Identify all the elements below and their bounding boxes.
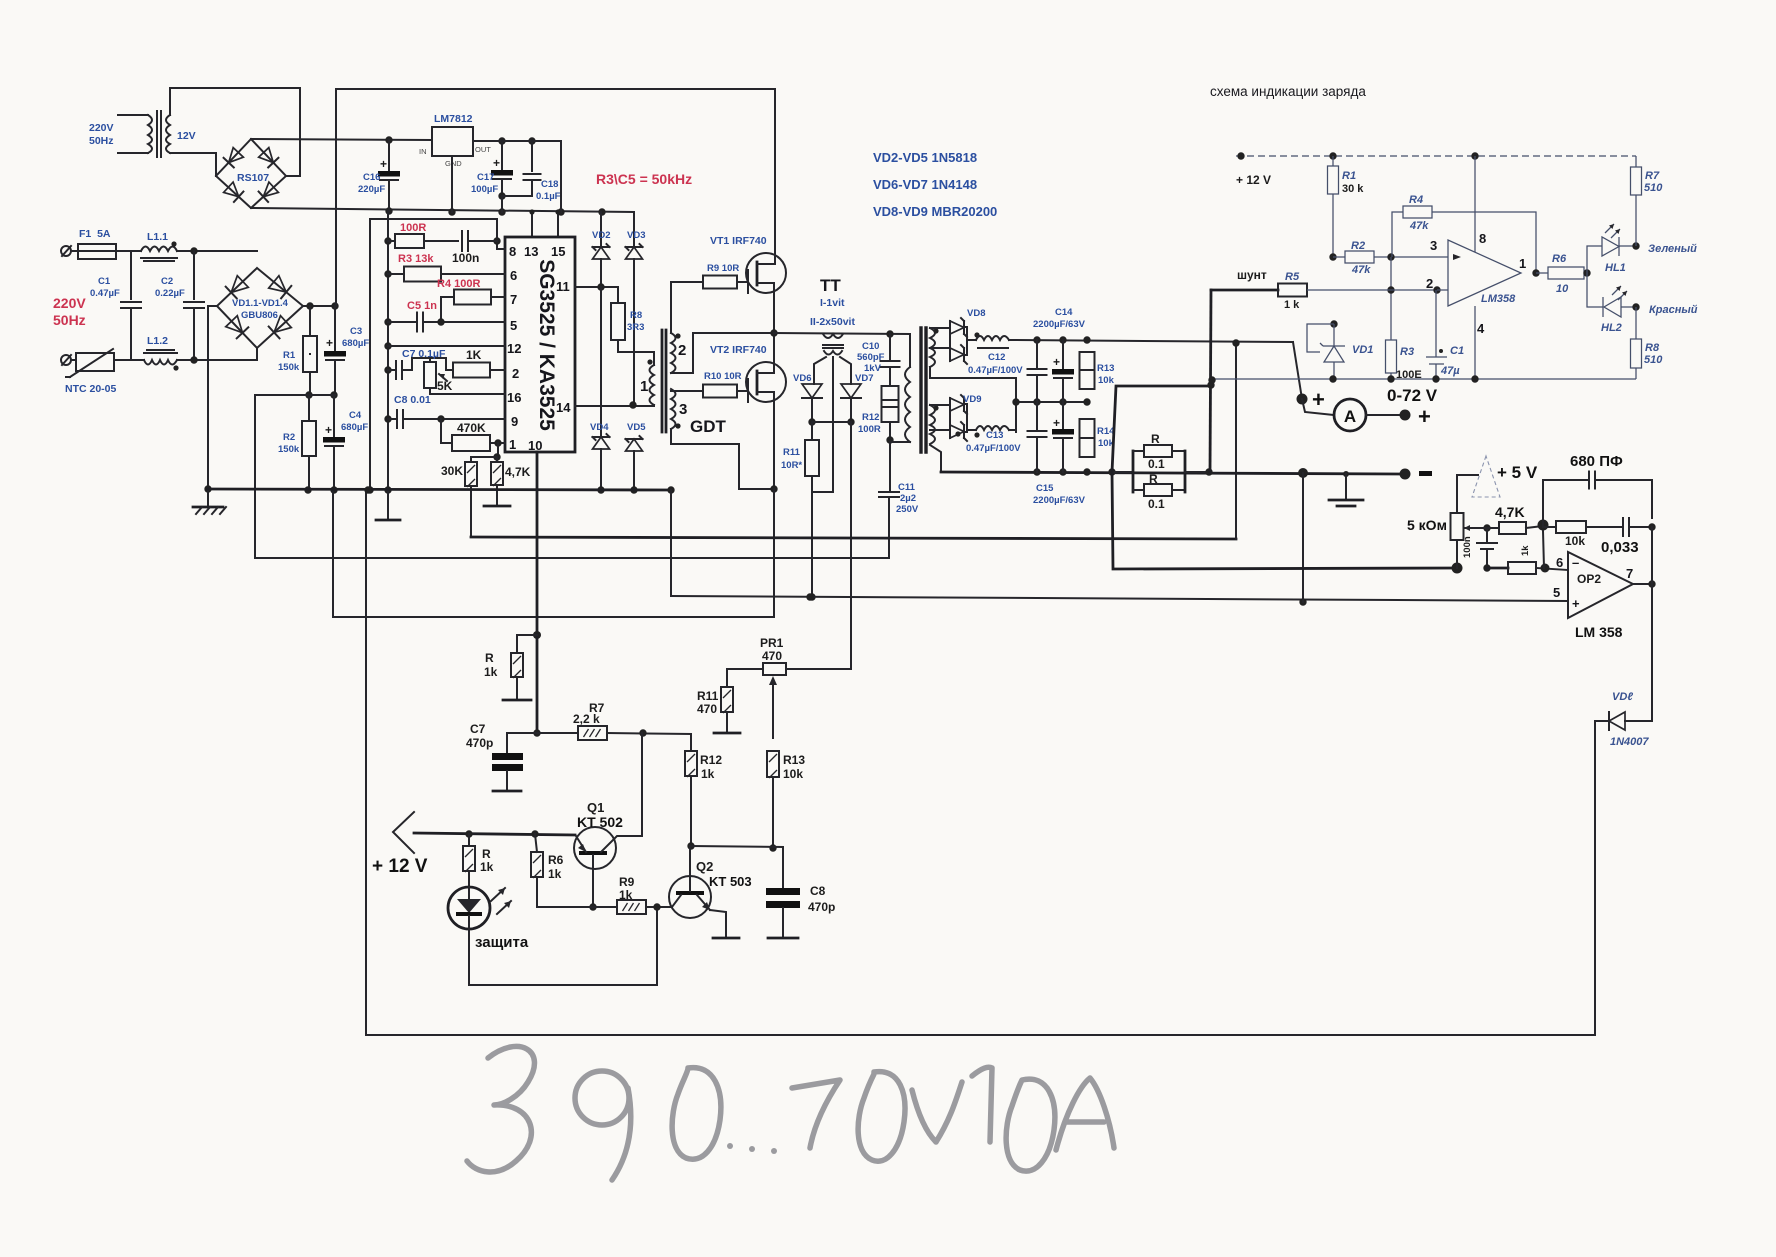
svg-text:GND: GND <box>445 159 462 168</box>
resistor R12 1k <box>690 734 692 751</box>
mosfet VT2 IRF740 <box>746 362 786 402</box>
svg-text:C8: C8 <box>810 884 826 898</box>
wire LED cathode to Q2 base node <box>469 907 657 985</box>
svg-text:11: 11 <box>556 279 570 294</box>
svg-text:C10: C10 <box>862 341 879 352</box>
svg-text:1: 1 <box>640 378 648 395</box>
svg-text:R11: R11 <box>783 447 801 458</box>
svg-text:VD9: VD9 <box>963 394 981 405</box>
PR1 wiper from R13 <box>772 682 774 738</box>
GDT winding 2 <box>671 333 676 373</box>
svg-text:SG3525 / KA3525: SG3525 / KA3525 <box>535 259 558 431</box>
inductor L1.2 <box>144 360 177 365</box>
svg-text:16: 16 <box>507 390 521 405</box>
svg-text:OUT: OUT <box>475 145 491 154</box>
resistor R14 10k <box>1080 419 1095 457</box>
svg-text:10k: 10k <box>783 767 803 781</box>
svg-text:VDℓ: VDℓ <box>1612 691 1633 703</box>
svg-text:470p: 470p <box>466 736 493 750</box>
bridge VD1.1-VD1.4 GBU806 <box>217 268 303 348</box>
svg-text:13: 13 <box>524 244 538 259</box>
svg-text:R13: R13 <box>783 753 805 767</box>
svg-text:680 ПФ: 680 ПФ <box>1570 453 1623 470</box>
svg-text:OP2: OP2 <box>1577 572 1601 586</box>
wire C3/C4 midpoint <box>255 394 335 396</box>
svg-text:4,7K: 4,7K <box>1495 504 1525 520</box>
svg-text:1: 1 <box>1519 256 1526 271</box>
svg-text:LM 358: LM 358 <box>1575 624 1623 640</box>
transformer T1 220V/12V <box>118 114 148 116</box>
svg-text:100R: 100R <box>400 222 426 234</box>
svg-text:шунт: шунт <box>1237 268 1267 282</box>
wire pin12 <box>384 342 391 349</box>
svg-text:1k: 1k <box>484 665 498 679</box>
wire DC- to chassis ground <box>208 306 217 489</box>
svg-text:0.1µF: 0.1µF <box>536 191 561 202</box>
svg-text:1 k: 1 k <box>1284 299 1300 311</box>
svg-text:510: 510 <box>1644 354 1663 366</box>
svg-text:R5: R5 <box>1285 271 1300 283</box>
wire +DC rail top <box>336 89 775 306</box>
resistor R6 1k <box>535 834 537 852</box>
wire pin8 supply <box>1474 156 1476 252</box>
capacitor 100n <box>461 231 463 251</box>
wire VT2 source down to return rail <box>773 489 775 617</box>
svg-text:1k: 1k <box>480 860 494 874</box>
wire PWM ground bus y=490 <box>208 489 671 490</box>
svg-text:C7: C7 <box>470 722 486 736</box>
wire return rail to C4- <box>333 490 774 617</box>
svg-text:1k: 1k <box>619 888 633 902</box>
diode VD2 <box>600 212 602 247</box>
svg-text:C3: C3 <box>350 326 362 337</box>
wire +12V drop to VCC rail <box>560 141 562 212</box>
svg-text:R1: R1 <box>1342 170 1356 182</box>
svg-text:VT2 IRF740: VT2 IRF740 <box>710 344 767 356</box>
GDT winding 1 <box>650 365 655 405</box>
svg-text:Зеленый: Зеленый <box>1648 243 1697 255</box>
svg-text:L1.2: L1.2 <box>147 335 168 347</box>
indication ground rail <box>1211 378 1636 380</box>
diode VD4 <box>600 287 602 437</box>
svg-text:0,033: 0,033 <box>1601 539 1639 556</box>
svg-text:VD6: VD6 <box>793 373 811 384</box>
resistor R 1k (LED series) <box>468 834 470 846</box>
svg-text:0.47µF: 0.47µF <box>90 288 120 299</box>
svg-text:VD2-VD5 1N5818: VD2-VD5 1N5818 <box>873 150 977 165</box>
svg-text:+ 5 V: + 5 V <box>1497 463 1538 482</box>
svg-text:+: + <box>1053 416 1060 430</box>
secondary winding W2 <box>930 405 935 444</box>
svg-text:10R*: 10R* <box>781 460 802 471</box>
svg-text:C16: C16 <box>363 172 380 183</box>
svg-text:L1.1: L1.1 <box>147 231 168 243</box>
svg-text:VD2: VD2 <box>592 230 610 241</box>
wire R3 divider vertical <box>1390 257 1392 340</box>
wire half-bridge midpoint to TT <box>774 333 910 334</box>
wire winding2 to R9 <box>671 282 703 333</box>
svg-text:C15: C15 <box>1036 483 1054 494</box>
+12V dashed rail <box>1236 155 1636 157</box>
svg-text:C1: C1 <box>1450 345 1464 357</box>
svg-text:Q1: Q1 <box>587 800 604 815</box>
capacitor C7 0.1uF <box>384 366 391 373</box>
svg-text:R10 10R: R10 10R <box>704 371 742 382</box>
resistor R4 100R (red) <box>441 297 454 322</box>
svg-text:R3 13k: R3 13k <box>398 253 434 265</box>
wire - output to terminal <box>1298 468 1308 478</box>
resistor R3 13k (red) <box>384 270 391 277</box>
svg-text:VD8: VD8 <box>967 308 985 319</box>
wire secondary loop <box>170 88 300 176</box>
svg-text:VD1: VD1 <box>1352 344 1373 356</box>
resistor 4,7K <box>496 457 498 462</box>
resistor 470K <box>441 419 452 443</box>
svg-text:2: 2 <box>512 366 519 381</box>
resistor R7 510 <box>1635 156 1637 167</box>
svg-text:510: 510 <box>1644 182 1663 194</box>
svg-text:VD7: VD7 <box>855 373 873 384</box>
svg-text:47µ: 47µ <box>1440 365 1460 377</box>
svg-text:R1: R1 <box>283 350 296 361</box>
capacitor C5 1n (red) <box>384 318 391 325</box>
svg-text:R9 10R: R9 10R <box>707 263 739 274</box>
capacitor C4 680uF <box>330 391 337 398</box>
svg-text:II-2x50vit: II-2x50vit <box>810 316 855 328</box>
svg-text:0.47µF/100V: 0.47µF/100V <box>968 365 1023 376</box>
wire sense tap from -rail <box>1112 386 1211 472</box>
svg-text:100µF: 100µF <box>471 184 498 195</box>
resistor R8 3R3 <box>617 287 619 303</box>
svg-text:8: 8 <box>1479 231 1486 246</box>
svg-text:100n: 100n <box>452 251 479 265</box>
wire DC+ <box>303 305 336 307</box>
svg-text:C7 0.1µF: C7 0.1µF <box>402 348 446 360</box>
svg-text:30K: 30K <box>441 464 463 478</box>
resistor R8 510 <box>1635 307 1637 339</box>
svg-text:2µ2: 2µ2 <box>900 493 916 504</box>
svg-text:R7: R7 <box>1645 170 1660 182</box>
svg-text:R: R <box>485 651 494 665</box>
resistor R2 47k <box>1329 253 1336 260</box>
svg-text:1k: 1k <box>548 867 562 881</box>
svg-text:R11: R11 <box>697 689 719 703</box>
svg-text:10k: 10k <box>1098 375 1115 386</box>
svg-text:GBU806: GBU806 <box>241 310 278 321</box>
svg-text:R13: R13 <box>1097 363 1114 374</box>
svg-text:3: 3 <box>1430 238 1437 253</box>
svg-text:+: + <box>1312 387 1325 412</box>
svg-text:0.1: 0.1 <box>1148 457 1165 471</box>
capacitor C17 100uF <box>501 141 503 170</box>
resistor 1K <box>453 363 490 378</box>
frame outer left/bottom <box>365 490 367 1035</box>
handwriting 39 0...70V 10A <box>467 1046 1114 1180</box>
GDT winding 3 <box>671 389 676 429</box>
svg-text:50Hz: 50Hz <box>89 135 114 147</box>
wire + output rail <box>1009 340 1293 342</box>
svg-text:R3: R3 <box>1400 346 1414 358</box>
svg-text:1N4007: 1N4007 <box>1610 736 1649 748</box>
svg-text:R6: R6 <box>1552 253 1567 265</box>
svg-text:C11: C11 <box>898 482 916 493</box>
wire - output rail <box>941 472 1405 474</box>
svg-text:C13: C13 <box>986 430 1003 441</box>
svg-text:VD6-VD7 1N4148: VD6-VD7 1N4148 <box>873 177 977 192</box>
wire pin11 <box>575 286 618 288</box>
capacitor C14 2200uF/63V <box>1062 340 1064 369</box>
svg-text:250V: 250V <box>896 504 919 515</box>
capacitor C16 220uF <box>388 140 390 171</box>
transformer GDT core <box>661 330 664 432</box>
svg-text:R: R <box>1149 472 1158 486</box>
svg-text:VD1.1-VD1.4: VD1.1-VD1.4 <box>232 298 289 309</box>
svg-text:R2: R2 <box>283 432 295 443</box>
svg-text:KT 502: KT 502 <box>577 814 623 830</box>
svg-text:–: – <box>1572 555 1579 570</box>
wire voltage feedback 30K to +out <box>471 537 1236 539</box>
wire junction to -input <box>1543 531 1544 568</box>
node dots 12V rail <box>385 136 392 143</box>
diode pair VD9 <box>930 404 950 406</box>
svg-text:R8: R8 <box>1645 342 1660 354</box>
chassis ground <box>204 485 211 492</box>
potentiometer 5 kOm <box>1451 513 1464 540</box>
svg-text:схема индикации заряда: схема индикации заряда <box>1210 84 1366 99</box>
svg-text:5 кОм: 5 кОм <box>1407 517 1447 533</box>
svg-text:220V: 220V <box>53 295 86 311</box>
capacitor 0,033 <box>1622 518 1624 536</box>
LED HL2 (red) <box>1587 273 1603 307</box>
resistor 1k inverting input <box>1487 567 1508 570</box>
svg-text:R6: R6 <box>548 853 564 867</box>
svg-text:R4: R4 <box>1409 194 1423 206</box>
svg-text:R3\C5 = 50kHz: R3\C5 = 50kHz <box>596 171 692 187</box>
TT secondary leads <box>814 357 826 384</box>
resistor R12 100R <box>882 386 899 422</box>
svg-text:R12: R12 <box>862 412 879 423</box>
svg-text:8: 8 <box>509 244 516 259</box>
svg-text:+: + <box>493 156 500 170</box>
svg-text:12V: 12V <box>177 130 196 142</box>
svg-text:470: 470 <box>762 649 782 663</box>
ground PWM bus <box>384 486 391 493</box>
wire winding3 to R10 <box>671 390 703 392</box>
wire pin8 / soft start loop <box>370 219 505 490</box>
trimmer PR1 470 <box>763 663 786 675</box>
LED HL1 (green) <box>1587 246 1602 273</box>
svg-text:+: + <box>1418 404 1431 429</box>
resistor R11 470 <box>726 669 728 687</box>
wire LM7812 OUT +12V <box>473 140 561 142</box>
wire shunt sense up to R5 <box>1210 290 1211 472</box>
opamp OP2 LM358 <box>1568 552 1633 618</box>
svg-text:+: + <box>1572 596 1580 611</box>
svg-text:10: 10 <box>1556 283 1569 295</box>
svg-text:560pF: 560pF <box>857 352 885 363</box>
ground symbol at - rail <box>1345 474 1347 499</box>
diode VD6 <box>802 384 822 398</box>
bridge rectifier RS107 <box>216 139 286 208</box>
svg-text:VD3: VD3 <box>627 230 645 241</box>
wire W2 bottom to - rail <box>930 445 941 472</box>
resistor R2 150k <box>305 391 312 398</box>
transistor Q1 KT502 <box>574 827 616 869</box>
wire VD7 node to PR1 <box>850 422 852 669</box>
wire winding3 bottom return <box>671 429 774 489</box>
svg-text:A: A <box>1344 407 1356 426</box>
svg-text:6: 6 <box>510 268 517 283</box>
LED zashchita <box>448 887 490 929</box>
svg-text:0.1: 0.1 <box>1148 497 1165 511</box>
resistor 30K <box>493 453 500 460</box>
feedback capacitor 680 pF <box>1538 520 1549 531</box>
ammeter A <box>1302 399 1334 415</box>
svg-text:VT1 IRF740: VT1 IRF740 <box>710 235 767 247</box>
diode VD7 <box>841 384 861 398</box>
svg-text:R2: R2 <box>1351 240 1365 252</box>
diode VD3 <box>633 212 635 247</box>
svg-text:GDT: GDT <box>690 417 727 436</box>
capacitor C12 0.47uF/100V <box>1036 340 1038 369</box>
resistor R9 1k <box>617 900 646 914</box>
svg-text:5: 5 <box>1553 585 1560 600</box>
arrow +12V feed <box>393 812 414 853</box>
resistor R 1k (pin10 pullup) <box>517 635 537 653</box>
svg-text:680µF: 680µF <box>341 422 368 433</box>
thermistor NTC 20-05 <box>71 359 76 361</box>
svg-text:100n: 100n <box>1462 536 1473 558</box>
svg-text:Q2: Q2 <box>696 859 713 874</box>
svg-text:C1: C1 <box>98 276 111 287</box>
svg-text:+: + <box>326 336 333 350</box>
ground bus of PWM network <box>387 211 389 490</box>
svg-text:1kV: 1kV <box>864 363 882 374</box>
svg-text:2: 2 <box>678 342 686 359</box>
capacitor 100n <box>1486 528 1488 543</box>
wire +12VAC rail to LM7812 <box>251 139 432 140</box>
wire OP2 -input bus <box>1112 472 1457 569</box>
shunt resistor R 0.1 parallel pair <box>1112 471 1133 473</box>
svg-text:14: 14 <box>556 400 571 415</box>
svg-text:+: + <box>325 423 332 437</box>
svg-text:3: 3 <box>679 401 687 418</box>
wire pin14 <box>575 405 654 407</box>
svg-text:VD8-VD9 MBR20200: VD8-VD9 MBR20200 <box>873 204 997 219</box>
svg-text:LM7812: LM7812 <box>434 113 473 125</box>
wire OP2 +input bus y=597-602 <box>671 596 1568 601</box>
label minus <box>1419 471 1432 476</box>
svg-text:C18: C18 <box>541 179 558 190</box>
svg-text:5: 5 <box>510 318 517 333</box>
transistor Q2 KT503 <box>669 876 711 918</box>
resistor R9 10R <box>703 276 737 289</box>
wire bridge bottom rail <box>251 208 634 212</box>
svg-text:50Hz: 50Hz <box>53 312 86 328</box>
terminal input N <box>61 355 71 365</box>
svg-text:12: 12 <box>507 341 521 356</box>
regulator LM7812 <box>432 127 473 156</box>
svg-text:7: 7 <box>1626 566 1633 581</box>
wire OP2 output <box>1633 583 1652 585</box>
wire W2 rect out to midnode <box>1009 429 1016 431</box>
zener VD1 <box>1330 320 1337 327</box>
svg-text:150k: 150k <box>278 444 300 455</box>
svg-text:2: 2 <box>1426 276 1433 291</box>
svg-text:47k: 47k <box>1351 264 1371 276</box>
svg-text:C8 0.01: C8 0.01 <box>394 394 431 406</box>
svg-text:220V: 220V <box>89 122 114 134</box>
wire ground bus corner down <box>670 490 672 596</box>
svg-text:9: 9 <box>511 414 518 429</box>
diode pair VD8 <box>930 327 950 329</box>
wire midpoint to transformer return <box>255 395 888 558</box>
svg-text:R8: R8 <box>630 310 642 321</box>
svg-text:4: 4 <box>1477 321 1485 336</box>
IC U1 SG3525/KA3525 <box>505 237 575 452</box>
svg-text:10: 10 <box>528 438 542 453</box>
svg-text:R4 100R: R4 100R <box>437 278 480 290</box>
capacitor C3 680uF <box>334 306 336 351</box>
svg-text:защита: защита <box>475 934 529 951</box>
+5V supply arrow <box>1456 540 1458 568</box>
wire pin10 shutdown line <box>536 452 539 635</box>
resistor 4,7K <box>1483 524 1490 531</box>
svg-text:100R: 100R <box>858 424 881 435</box>
svg-text:5K: 5K <box>437 379 453 393</box>
wire feedback to bottom frame <box>1594 721 1596 1035</box>
capacitor C15 2200uF/63V <box>1062 402 1064 429</box>
svg-text:F1 5A: F1 5A <box>79 228 111 240</box>
svg-text:+: + <box>380 157 387 171</box>
capacitor C8 470p <box>782 847 784 888</box>
wire winding2 bottom to source <box>671 333 774 373</box>
svg-text:R12: R12 <box>700 753 722 767</box>
secondary winding W1 <box>930 328 935 367</box>
capacitor C1 47uF <box>1435 290 1437 357</box>
capacitor C10 560pF <box>886 330 893 337</box>
main transformer primary <box>909 334 911 367</box>
svg-text:TT: TT <box>820 276 841 295</box>
svg-text:VD5: VD5 <box>627 422 646 433</box>
svg-text:C17: C17 <box>477 172 494 183</box>
svg-text:R: R <box>1151 432 1160 446</box>
wire -rail down to OP2 +input <box>1302 473 1304 602</box>
svg-text:LM358: LM358 <box>1481 293 1516 305</box>
wire pin4 to rail <box>1474 306 1476 379</box>
resistor R6 10 <box>1536 272 1548 274</box>
resistor R11 10R* <box>811 422 813 440</box>
svg-text:1K: 1K <box>466 348 482 362</box>
diode VD 1N4007 <box>1625 720 1652 722</box>
svg-text:1: 1 <box>509 437 516 452</box>
svg-text:150k: 150k <box>278 362 300 373</box>
capacitor C7 470p <box>506 733 508 753</box>
svg-text:470p: 470p <box>808 900 835 914</box>
wire + rail diagonal to ammeter <box>1293 342 1302 399</box>
svg-text:IN: IN <box>419 147 427 156</box>
mosfet VT1 IRF740 <box>746 253 786 293</box>
trimmer 5K <box>429 358 431 362</box>
svg-text:KT 503: KT 503 <box>709 874 752 889</box>
svg-text:0-72 V: 0-72 V <box>1387 386 1438 405</box>
svg-text:2200µF/63V: 2200µF/63V <box>1033 495 1086 506</box>
svg-text:C5 1n: C5 1n <box>407 300 437 312</box>
svg-text:PR1: PR1 <box>760 636 784 650</box>
svg-text:VD4: VD4 <box>590 422 609 433</box>
wire Q1 base row <box>537 906 617 908</box>
svg-text:HL1: HL1 <box>1605 262 1626 274</box>
